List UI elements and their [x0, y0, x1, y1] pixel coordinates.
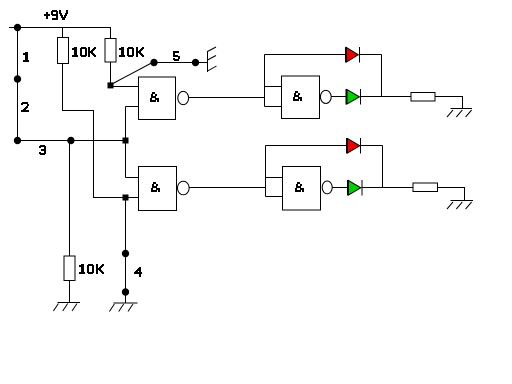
wire gate U1b input2 [265, 106, 282, 108]
node 3 junction [14, 137, 21, 144]
wire U1b output to green LED D2 [331, 96, 346, 98]
wire node4 vertical to ground [125, 198, 127, 304]
wire gate U2b input2 [266, 196, 283, 198]
wire D4 cathode to resistor R5 [362, 187, 413, 189]
label node 4 [134, 267, 142, 277]
wire gate U2b input1 [266, 177, 283, 179]
resistor R1 10K [58, 28, 69, 64]
junction square S1 switch pivot [108, 82, 114, 88]
ground G5 chassis at node5 [208, 47, 217, 72]
node 2 junction [14, 75, 21, 82]
junction square S2 [123, 138, 129, 144]
wire bus1 vertical [264, 55, 266, 107]
node 4 lower junction [122, 288, 129, 295]
wire gate U1a input1 [111, 86, 139, 88]
resistor R5 [413, 183, 465, 201]
wire D3 cathode to junction [361, 146, 383, 188]
wire bus1 top to red LED D1 [265, 54, 346, 56]
ground G3 [447, 109, 472, 118]
junction square S3 [123, 195, 129, 201]
label +9V [44, 10, 68, 20]
label 10K R2 [119, 47, 144, 57]
gate U1a NAND [139, 77, 176, 120]
bubble U2a output [178, 181, 190, 195]
wire node3 horizontal [18, 140, 126, 142]
wire left rail node1-node3 [17, 28, 19, 141]
wire gate U1a input2 vertical [126, 107, 139, 178]
gate U2a NAND [139, 167, 177, 211]
bubble U1a output [178, 91, 189, 104]
ground G2 under node4 [109, 303, 137, 312]
gate U1b NAND [282, 76, 320, 119]
diode D2 green LED [346, 89, 361, 105]
ground G1 under R3 [53, 303, 80, 312]
node 5 right junction [192, 59, 199, 66]
wire D1 cathode to junction [360, 55, 382, 97]
gate U2b NAND [283, 167, 321, 211]
ground G4 [447, 201, 473, 210]
label node 1 [23, 52, 29, 62]
wire gate U2a input2 [126, 197, 140, 199]
diode D3 red LED [347, 138, 361, 154]
wire R1 bottom to junction S3 [63, 64, 126, 198]
wire D2 cathode to resistor R4 [361, 96, 412, 98]
resistor R3 10K [64, 141, 75, 303]
label node 5 [173, 51, 180, 61]
wire gate U2a input1 [126, 177, 140, 179]
bubble U2b output [322, 181, 332, 194]
wire +9V top rail [9, 27, 111, 29]
bubble U1b output [320, 90, 331, 103]
wire bus2 vertical [265, 146, 267, 197]
resistor R4 [411, 93, 463, 109]
node 5 left junction [150, 59, 157, 66]
node 4 upper junction [122, 250, 129, 257]
node junction at +9V rail [14, 24, 21, 31]
label node 3 [39, 145, 46, 155]
label node 2 [21, 102, 29, 112]
label 10K R3 [79, 264, 104, 274]
switch S1 arm [112, 64, 151, 85]
label 10K R1 [72, 47, 96, 57]
wire U1a output to bus1 [189, 97, 265, 99]
resistor R2 10K [105, 28, 116, 86]
diode D4 green LED [348, 180, 363, 196]
diode D1 red LED [346, 47, 360, 63]
node junction R3 top [67, 137, 74, 144]
wire U2a output to bus2 [189, 187, 265, 189]
wire gate U1b input1 [265, 86, 282, 88]
wire bus2 top to red LED D3 [266, 145, 347, 147]
wire node5 [152, 62, 208, 64]
wire U2b output to green LED D4 [332, 187, 347, 189]
